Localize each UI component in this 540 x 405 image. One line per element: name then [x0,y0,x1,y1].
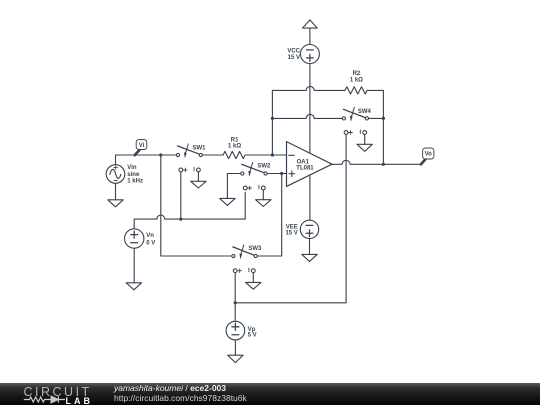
junction dot inverting input [271,153,274,156]
source Vp body [226,321,245,340]
ground (SW4 I-terminal) [357,144,372,151]
ground (SW2 I-terminal) [256,200,271,207]
svg-text:SW3: SW3 [248,246,262,252]
svg-text:Vin: Vin [127,165,137,171]
label Vp value [248,327,257,339]
SW4 measurement terminals (+ and I) [344,130,366,135]
SW2 measurement terminals (+ and I) [243,185,265,190]
svg-text:15 V: 15 V [288,55,300,61]
junction dot feedback/SW4 left [271,117,274,120]
svg-text:VCC: VCC [287,48,300,54]
label R2 value [350,71,363,84]
svg-text:TL081: TL081 [296,166,314,172]
svg-text:OA1: OA1 [297,160,310,166]
svg-text:1 kΩ: 1 kΩ [350,78,363,84]
logo resistor-diode symbol [24,396,65,403]
footer bar [0,383,540,405]
ground (VEE) [302,254,317,261]
wire SW4 plus-terminal down and across to Vp node [235,134,346,302]
wire SW1 to R1 and R1 to op-amp inverting input [203,154,287,156]
op-amp OA1 body [287,142,333,187]
svg-text:R2: R2 [353,71,361,77]
wire top feedback rail to R2 (hop over VCC rail) [272,86,383,90]
svg-text:Vi: Vi [139,143,145,149]
wire SW4 I-terminal to ground [364,134,366,144]
wire op-amp output to node Vo (hop over SW4 plus vertical) [332,160,421,164]
junction dot Vn rail / SW1 plus [179,218,182,221]
switch SW3 body [232,245,258,260]
wire VCC arrow stem [309,28,311,45]
wire SW2 I-terminal to ground [262,190,264,200]
SW3 measurement terminals (+ and I) [233,268,255,273]
label R1 value [228,137,241,149]
wire SW1 I-terminal to ground [197,172,199,182]
svg-text:15 V: 15 V [285,231,297,237]
svg-text:5 V: 5 V [248,333,257,339]
wire Vp to ground [234,340,236,355]
source Vin (sine) body [106,165,125,184]
svg-text:Vo: Vo [425,152,433,158]
junction dot node Vi [159,153,162,156]
source VEE body [300,220,318,238]
wire SW3 plus-terminal down to Vp [234,273,236,322]
ground (SW2 left) [220,198,235,205]
label OA1 TL081 [296,160,314,172]
flag Vo [421,148,434,164]
switch SW1 body [176,144,202,159]
svg-text:SW2: SW2 [257,164,271,170]
flag Vi [135,140,147,156]
switch SW4 body [342,107,368,122]
svg-text:1 kHz: 1 kHz [127,179,143,185]
junction dot output node [382,163,385,166]
wire feedback node vertical (R2/SW4 left to inverting input) [271,90,273,155]
wire SW1 plus-terminal down to Vn rail [180,172,182,219]
label Vn value [146,233,155,246]
wire right feedback vertical R2/SW4 to output [382,90,384,164]
svg-text:Vn: Vn [146,233,154,239]
ground (Vp) [228,355,243,362]
junction dot non-inverting input [280,172,283,175]
svg-text:sine: sine [127,172,140,178]
svg-text:0 V: 0 V [146,241,155,247]
ground (SW1 I-terminal) [191,181,206,188]
svg-text:SW1: SW1 [192,145,206,151]
wire SW3 I-terminal to ground [252,273,254,283]
resistor R1 body [223,151,245,158]
wire SW2 left terminal to ground [227,174,240,199]
label VEE value [285,225,297,237]
wire Vin top to SW1 (node Vi) [116,155,177,165]
label Vin value [127,165,143,184]
wire Vn to ground [133,248,135,283]
switch SW2 body [241,162,268,177]
source Vn body [125,229,144,248]
junction dot R2/SW4 right [382,117,385,120]
wire SW4 row (hop over VCC rail) [272,114,383,118]
wire VCC to op-amp supply and VEE [309,63,311,220]
svg-text:1 kΩ: 1 kΩ [228,143,241,149]
junction dot Vp node [234,301,237,304]
source VCC body [300,45,319,64]
wire VEE to ground [309,239,311,255]
label VCC value [287,48,300,61]
CircuitLab logo [24,385,92,399]
ground (SW3 I-terminal) [246,282,261,289]
ground (Vin) [108,200,123,207]
wire Vin to ground [115,183,117,200]
svg-text:SW4: SW4 [358,109,372,115]
wire SW2 to op-amp non-inverting input [267,173,286,175]
resistor R2 body [345,87,367,94]
power flag VCC arrow [303,20,318,28]
SW1 measurement terminals (+ and I) [179,167,200,172]
wire Vn top rail to SW2 plus-terminal (hop over Vi vertical) [134,192,245,229]
ground (Vn) [126,283,141,290]
wire non-inverting input down to SW3 right [257,174,282,257]
wire node Vi down to SW3 left [161,155,232,256]
